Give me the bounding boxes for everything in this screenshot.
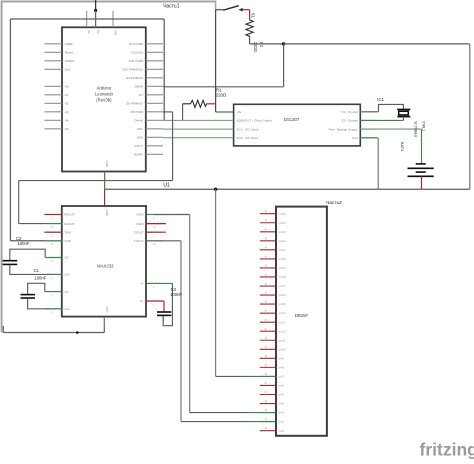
wire D5 riser down xyxy=(172,112,174,181)
svg-text:100nF: 100nF xyxy=(18,241,30,246)
wire R1 left lead xyxy=(183,103,191,105)
svg-text:pin14: pin14 xyxy=(279,311,286,315)
wire R2IN bracket to pin3 xyxy=(190,412,246,414)
wire C2 top plate up xyxy=(10,249,45,260)
svg-text:C1: C1 xyxy=(34,268,40,273)
svg-text:100nF: 100nF xyxy=(170,292,182,297)
wire 5V vertical (frame right) xyxy=(215,10,217,112)
MAX232 left pin C1- stub xyxy=(46,291,62,293)
wire V- down xyxy=(163,283,172,325)
svg-text:fritzing: fritzing xyxy=(420,440,474,460)
Arduino left pin A0 stub xyxy=(45,85,63,87)
wire T2IN red xyxy=(44,231,62,233)
svg-text:Gnd: Gnd xyxy=(352,136,358,140)
wire SQW from D4 xyxy=(163,119,234,121)
svg-text:Часть2: Часть2 xyxy=(326,200,342,206)
battery BAT1 plates xyxy=(416,163,426,165)
wire Arduino GND down green xyxy=(104,172,106,190)
svg-text:T2IN: T2IN xyxy=(64,230,71,234)
DB25F pin15 stub xyxy=(260,303,276,305)
Arduino right pin D0/RX stub xyxy=(146,153,163,155)
DB25F pin2 number tick xyxy=(265,418,267,420)
wire switch to R2 red xyxy=(249,10,251,19)
capacitor C3 plates xyxy=(157,311,171,313)
DB25F pin14 number tick xyxy=(265,310,267,312)
switch S1 arrowhead xyxy=(238,8,242,12)
capacitor C2 plates xyxy=(3,260,18,262)
svg-text:BAT1: BAT1 xyxy=(400,142,405,151)
DB25F pin23 number tick xyxy=(265,229,267,231)
wire X2 up xyxy=(402,117,404,121)
DB25F pin12 stub xyxy=(260,330,276,332)
wire top-right horizontal xyxy=(284,43,470,45)
MAX232 right pin R2IN stub xyxy=(146,214,162,216)
svg-text:100nF: 100nF xyxy=(34,276,46,281)
wire W2 into T1IN green xyxy=(46,240,62,242)
Arduino left pin AREF stub xyxy=(45,43,63,45)
DS1307 right pin X2 - Crystal stub xyxy=(360,119,376,121)
DB25F pin5 number tick xyxy=(265,391,267,393)
wire C1 top plate up xyxy=(28,283,45,294)
svg-text:V-: V- xyxy=(141,282,144,286)
node junction bus/U1 bracket xyxy=(214,188,217,191)
svg-text:A5: A5 xyxy=(65,127,69,131)
DB25F pin21 stub xyxy=(260,249,276,251)
svg-text:X2 - Crystal: X2 - Crystal xyxy=(341,119,357,123)
wire X1 up xyxy=(379,104,404,111)
svg-text:SDA: SDA xyxy=(137,136,144,140)
DB25F pin4 number tick xyxy=(265,400,267,402)
wire C1 bottom plate down xyxy=(28,298,50,309)
svg-text:pin5: pin5 xyxy=(279,393,285,397)
wire 5V pin green segment xyxy=(95,11,97,28)
DB25F pin10 stub xyxy=(260,348,276,350)
wire bottom bus xyxy=(3,332,104,334)
svg-text:GND: GND xyxy=(105,161,109,167)
wire MAX232 GND up red xyxy=(104,189,106,206)
svg-text:VCC: VCC xyxy=(105,307,109,313)
DB25F pin23 stub xyxy=(260,231,276,233)
capacitor C1 plates xyxy=(21,294,36,296)
svg-text:D0/RX: D0/RX xyxy=(134,153,143,157)
Arduino right pin D5 PWM stub xyxy=(146,111,163,113)
wire DS1307 Gnd riser xyxy=(377,138,379,190)
wire R1 jog down to SQW net xyxy=(182,104,184,121)
DB25F pin22 number tick xyxy=(265,238,267,240)
svg-text:S1: S1 xyxy=(251,13,256,19)
svg-text:pin7: pin7 xyxy=(279,375,285,379)
wire U1 bracket to pin7 xyxy=(216,375,246,377)
switch S1 lever xyxy=(223,6,239,11)
svg-text:pin17: pin17 xyxy=(279,284,286,288)
svg-text:R1IN: R1IN xyxy=(137,222,144,226)
svg-text:pin22: pin22 xyxy=(279,239,286,243)
wire W2 horizontal to T1IN xyxy=(10,240,45,242)
MAX232 right pin T2OUT stub xyxy=(146,231,162,233)
DB25F pin7 stub xyxy=(260,375,276,377)
IC DS1307 body xyxy=(234,104,361,146)
DB25F pin6 stub xyxy=(260,384,276,386)
svg-text:D6 PWM/A7: D6 PWM/A7 xyxy=(126,102,143,106)
Arduino right pin D1/TX stub xyxy=(146,145,163,147)
svg-text:SQW/OUT - Clock Output: SQW/OUT - Clock Output xyxy=(236,119,271,123)
svg-text:D7: D7 xyxy=(139,93,143,97)
DB25F pin21 number tick xyxy=(265,247,267,249)
wire switch left red xyxy=(216,9,224,11)
wire R1 right lead red xyxy=(207,103,216,105)
wire battery top riser xyxy=(421,129,423,164)
svg-text:D5 PWM: D5 PWM xyxy=(131,110,144,114)
wire C2 bottom plate down xyxy=(10,265,50,275)
DB25F pin17 stub xyxy=(260,285,276,287)
MAX232 left pin T1IN stub xyxy=(46,240,62,242)
DB25F pin12 number tick xyxy=(265,328,267,330)
DB25F pin4 stub xyxy=(260,403,276,405)
wire V- out green xyxy=(146,282,172,284)
wire right edge vertical xyxy=(469,44,471,189)
DB25F pin14 stub xyxy=(260,312,276,314)
svg-text:A2: A2 xyxy=(65,102,69,106)
MAX232 left pin R2OUT stub xyxy=(46,214,62,216)
DB25F pin19 number tick xyxy=(265,265,267,267)
wire into C2+ green xyxy=(50,273,62,275)
Arduino right pin D9 PWM/A9 stub xyxy=(146,77,163,79)
wire X2 green xyxy=(360,119,403,121)
svg-text:3v3: 3v3 xyxy=(65,68,70,72)
wire W2 left loop vertical xyxy=(9,19,11,241)
Arduino left pin A4 stub xyxy=(45,119,63,121)
wire DS1307 Gnd green xyxy=(360,137,378,139)
DB25F pin9 stub xyxy=(260,357,276,359)
svg-text:pin13: pin13 xyxy=(279,320,286,324)
DB25F pin8 stub xyxy=(260,366,276,368)
resistor R2 zigzag xyxy=(246,19,253,38)
IC Arduino Leonardo (Rev3b) body xyxy=(62,27,146,171)
DB25F pin24 number tick xyxy=(265,220,267,222)
svg-text:Pwr - Backup Supply: Pwr - Backup Supply xyxy=(329,127,358,131)
DB25F pin25 number tick xyxy=(265,211,267,213)
svg-text:U1: U1 xyxy=(163,182,170,188)
MAX232 right pin R1IN stub xyxy=(146,223,162,225)
DS1307 right pin Gnd stub xyxy=(360,137,376,139)
svg-text:pin3: pin3 xyxy=(279,411,285,415)
svg-text:pin20: pin20 xyxy=(279,257,286,261)
frame Часть1 left edge xyxy=(1,1,3,333)
Arduino left pin A5 stub xyxy=(45,128,63,130)
wire R2 to node xyxy=(250,43,284,45)
wire W1 horizontal y=19 xyxy=(10,18,164,20)
node junction bottom bus xyxy=(76,331,79,334)
wire battery to bus red xyxy=(421,176,423,189)
wire GND bus xyxy=(105,188,470,190)
MAX232 left pin C2- stub xyxy=(46,257,62,259)
Arduino left pin A1 stub xyxy=(45,94,63,96)
crystal IC1 top plate xyxy=(397,109,410,111)
Arduino right pin SCL stub xyxy=(146,128,163,130)
svg-text:220Ω: 220Ω xyxy=(216,93,226,98)
Arduino right pin D8/A8 stub xyxy=(146,85,163,87)
svg-text:X1 - Crystal: X1 - Crystal xyxy=(341,110,357,114)
DB25F pin19 stub xyxy=(260,267,276,269)
DB25F pin1 stub xyxy=(260,430,276,432)
svg-text:pin16: pin16 xyxy=(279,293,286,297)
svg-text:pin25: pin25 xyxy=(279,212,286,216)
DB25F pin17 number tick xyxy=(265,283,267,285)
DB25F pin13 stub xyxy=(260,321,276,323)
svg-text:C1-: C1- xyxy=(64,290,69,294)
svg-text:5V: 5V xyxy=(96,30,100,34)
wire SCL xyxy=(163,128,234,130)
svg-text:DB25F: DB25F xyxy=(295,313,309,318)
frame Часть1 right edge (upper) xyxy=(215,1,217,11)
svg-text:pin24: pin24 xyxy=(279,221,286,225)
DS1307 right pin X1 - Crystal stub xyxy=(360,111,376,113)
svg-text:V+: V+ xyxy=(140,299,144,303)
svg-text:pin4: pin4 xyxy=(279,402,285,406)
svg-text:pin12: pin12 xyxy=(279,329,286,333)
wire Pwr to battery xyxy=(360,128,421,130)
DB25F pin20 stub xyxy=(260,258,276,260)
MAX232 left pin C2+ stub xyxy=(46,273,62,275)
svg-text:D10 PWM/A10: D10 PWM/A10 xyxy=(123,68,144,72)
wire D8 horizontal xyxy=(163,86,284,88)
DB25F pin1 number tick xyxy=(265,427,267,429)
svg-text:T1OUT: T1OUT xyxy=(133,239,143,243)
DB25F pin8 number tick xyxy=(265,364,267,366)
wire U1 bracket vertical xyxy=(215,189,217,376)
wire V+ red xyxy=(146,300,164,302)
svg-text:pin1: pin1 xyxy=(279,429,285,433)
DB25F pin22 stub xyxy=(260,240,276,242)
connector DB25F body xyxy=(276,207,327,436)
DB25F pin5 stub xyxy=(260,394,276,396)
MAX232 left pin R1OUT stub xyxy=(46,223,62,225)
svg-text:A4: A4 xyxy=(65,119,69,123)
svg-text:pin15: pin15 xyxy=(279,302,286,306)
svg-text:R2OUT: R2OUT xyxy=(64,213,75,217)
svg-text:pin19: pin19 xyxy=(279,266,286,270)
Arduino right pin D11 PWM stub xyxy=(146,60,163,62)
Arduino left pin A3 stub xyxy=(45,111,63,113)
svg-text:R2: R2 xyxy=(259,42,264,48)
wire T2OUT red xyxy=(146,231,166,233)
Arduino right pin D10 PWM/A10 stub xyxy=(146,68,163,70)
wire R2 bottom lead xyxy=(249,37,251,44)
svg-text:pin9: pin9 xyxy=(279,356,285,360)
svg-text:Часть1: Часть1 xyxy=(163,3,180,9)
svg-text:A1: A1 xyxy=(65,93,69,97)
DB25F pin24 stub xyxy=(260,222,276,224)
DB25F pin16 stub xyxy=(260,294,276,296)
svg-text:C1+: C1+ xyxy=(64,307,70,311)
Arduino right pin SDA stub xyxy=(146,136,163,138)
wire T1OUT out green xyxy=(146,240,154,242)
svg-text:pin2: pin2 xyxy=(279,420,285,424)
wire y=180.6 horizontal xyxy=(19,180,173,182)
svg-text:D9 PWM/A9: D9 PWM/A9 xyxy=(126,76,143,80)
wire R2IN bracket vertical xyxy=(189,215,191,413)
svg-text:Leonardo: Leonardo xyxy=(95,92,114,97)
Arduino right pin D4/A6 stub xyxy=(146,119,163,121)
DB25F pin20 number tick xyxy=(265,256,267,258)
svg-text:VIN: VIN xyxy=(113,30,117,35)
wire left bracket down xyxy=(18,181,20,224)
Arduino top pin 5V stub xyxy=(95,11,97,28)
wire bottom bus left up xyxy=(2,326,4,333)
DB25F pin16 number tick xyxy=(265,292,267,294)
Arduino left pin Reset stub xyxy=(45,51,63,53)
Arduino bottom pin GND stub xyxy=(104,172,106,188)
crystal IC1 bottom plate xyxy=(397,116,410,118)
svg-text:pin23: pin23 xyxy=(279,230,286,234)
svg-text:SCL - I2C Clock: SCL - I2C Clock xyxy=(236,127,259,131)
wire VCC down xyxy=(103,317,105,324)
svg-text:pin18: pin18 xyxy=(279,275,286,279)
Arduino left pin A2 stub xyxy=(45,102,63,104)
DB25F pin2 stub xyxy=(260,421,276,423)
resistor R1 zigzag xyxy=(191,100,207,107)
Arduino right pin D13 PWM stub xyxy=(146,43,163,45)
MAX232 right pin T1OUT stub xyxy=(146,240,162,242)
wire into C1- green xyxy=(45,291,62,293)
Arduino right pin D7 stub xyxy=(146,94,163,96)
svg-text:pin10: pin10 xyxy=(279,347,286,351)
wire D5 out xyxy=(163,111,173,113)
DB25F pin3 number tick xyxy=(265,409,267,411)
IC U1 MAX232 body xyxy=(62,206,146,317)
wire 5V into DS1307 green xyxy=(216,111,234,113)
svg-text:pin8: pin8 xyxy=(279,365,285,369)
svg-text:D1/TX: D1/TX xyxy=(134,144,143,148)
svg-text:(Rev3b): (Rev3b) xyxy=(96,98,112,103)
DB25F pin18 number tick xyxy=(265,274,267,276)
wire into R1OUT xyxy=(19,223,46,225)
svg-text:A3: A3 xyxy=(65,110,69,114)
node junction R2/D8/top-right xyxy=(282,42,285,45)
wire R1IN red xyxy=(146,223,166,225)
svg-text:Reset: Reset xyxy=(65,51,73,55)
svg-text:R1OUT: R1OUT xyxy=(64,222,75,226)
wire R2IN to bracket xyxy=(154,214,190,216)
wire W3 vertical x=164 xyxy=(163,19,165,120)
MAX232 left pin C1+ stub xyxy=(46,308,62,310)
wire into C2- green xyxy=(45,257,62,259)
MAX232 right pin V- stub xyxy=(146,282,162,284)
svg-text:IC1: IC1 xyxy=(377,97,384,102)
svg-text:D13 PWM: D13 PWM xyxy=(129,42,144,46)
DS1307 right pin Pwr - Backup Supply stub xyxy=(360,128,376,130)
svg-text:C2+: C2+ xyxy=(64,273,70,277)
svg-text:pin21: pin21 xyxy=(279,248,286,252)
svg-text:pin11: pin11 xyxy=(279,338,286,342)
wire into C1+ green xyxy=(50,308,62,310)
svg-text:+5v: +5v xyxy=(236,110,242,114)
wire R2OUT red xyxy=(44,214,62,216)
Arduino left pin IOREF stub xyxy=(45,60,63,62)
svg-text:R2IN: R2IN xyxy=(137,213,144,217)
DB25F pin10 number tick xyxy=(265,346,267,348)
wire into R1OUT green xyxy=(46,223,62,225)
DB25F pin3 stub xyxy=(260,412,276,414)
DB25F pin11 number tick xyxy=(265,337,267,339)
DB25F pin13 number tick xyxy=(265,319,267,321)
frame Часть1 top edge xyxy=(1,1,216,3)
svg-text:Arduino: Arduino xyxy=(96,86,111,91)
wire T1OUT bracket vertical xyxy=(180,241,182,422)
svg-text:D8/A8: D8/A8 xyxy=(134,85,143,89)
wire T1OUT bracket to pin2 xyxy=(181,421,246,423)
wire V- into C3 green xyxy=(162,316,164,321)
wire T1OUT to bracket xyxy=(154,240,181,242)
MAX232 left pin T2IN stub xyxy=(46,231,62,233)
svg-text:3V: 3V xyxy=(87,30,91,34)
wire V+ down red xyxy=(163,301,165,311)
svg-text:A0: A0 xyxy=(65,85,69,89)
svg-text:D11 PWM: D11 PWM xyxy=(129,59,143,63)
Arduino right pin D6 PWM/A7 stub xyxy=(146,102,163,104)
DB25F pin6 number tick xyxy=(265,382,267,384)
svg-text:GND: GND xyxy=(105,210,109,216)
DB25F pin11 stub xyxy=(260,339,276,341)
DB25F pin25 stub xyxy=(260,213,276,215)
svg-text:T2OUT: T2OUT xyxy=(133,230,143,234)
DB25F pin15 number tick xyxy=(265,301,267,303)
wire switch right red xyxy=(243,9,250,11)
Arduino left pin 3v3 stub xyxy=(45,68,63,70)
wire 5V riser above dot xyxy=(95,0,97,11)
wire X1 green xyxy=(360,111,378,113)
Arduino top pin 3V stub xyxy=(86,11,88,28)
DB25F pin9 number tick xyxy=(265,355,267,357)
svg-text:pin6: pin6 xyxy=(279,384,285,388)
svg-text:IOREF: IOREF xyxy=(65,59,75,63)
Arduino top pin VIN stub xyxy=(112,11,114,28)
DB25F pin7 number tick xyxy=(265,373,267,375)
wire node down to D8 row xyxy=(283,44,285,87)
svg-text:T1IN: T1IN xyxy=(64,239,71,243)
MAX232 right pin V+ stub xyxy=(146,300,162,302)
Arduino right pin D12/A11 stub xyxy=(146,51,163,53)
svg-text:SCL: SCL xyxy=(137,127,143,131)
crystal IC1 body xyxy=(399,111,409,115)
wire SDA xyxy=(163,137,234,139)
wire R2IN out green xyxy=(146,214,154,216)
svg-text:C2-: C2- xyxy=(64,256,69,260)
svg-text:AREF: AREF xyxy=(65,42,73,46)
svg-text:MAX232: MAX232 xyxy=(97,263,114,268)
svg-text:D12/A11: D12/A11 xyxy=(131,51,143,55)
svg-text:DS1307: DS1307 xyxy=(284,117,300,122)
svg-text:D4/A6: D4/A6 xyxy=(134,119,143,123)
node junction at 5V pin top xyxy=(94,9,97,12)
svg-text:SDA - I2C Data: SDA - I2C Data xyxy=(236,136,257,140)
DB25F pin18 stub xyxy=(260,276,276,278)
